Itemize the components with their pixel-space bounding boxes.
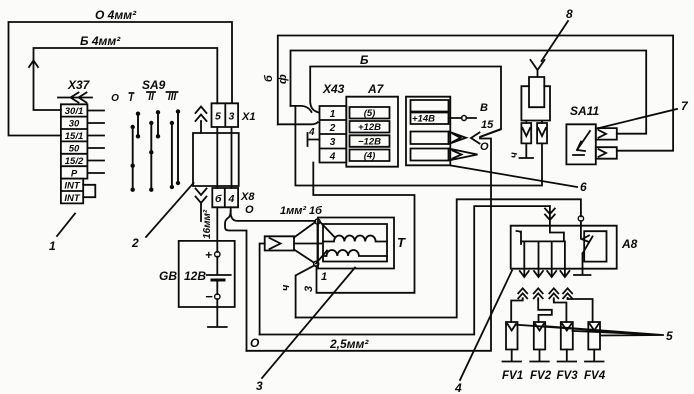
B loop wire to receiver bar3 [310, 67, 501, 137]
svg-text:+12В: +12В [358, 122, 381, 133]
SA9 bar II-left [150, 123, 152, 190]
radio bar 2 +14V [411, 113, 449, 125]
svg-text:О 4мм²: О 4мм² [95, 8, 137, 22]
A8 contact arrow [581, 226, 593, 254]
svg-text:50: 50 [69, 144, 80, 155]
svg-text:1мм²: 1мм² [280, 205, 306, 217]
svg-text:1: 1 [321, 271, 327, 283]
svg-text:2: 2 [329, 123, 336, 134]
SA9 bar I-right [137, 114, 139, 137]
stem to FV2 [538, 300, 552, 322]
A7 box [346, 97, 398, 167]
T inner box [323, 224, 387, 262]
antenna outer box [521, 86, 550, 123]
SA11 box [566, 124, 595, 164]
big outer loop wire (to SA11 lower plug) [278, 36, 673, 151]
legs down chevrons [520, 271, 570, 277]
loop A wire [296, 199, 581, 317]
svg-text:30: 30 [69, 119, 80, 130]
FV4 ground [585, 350, 604, 362]
loop B wire [260, 206, 550, 334]
svg-text:1: 1 [330, 109, 336, 120]
svg-text:О: О [245, 204, 254, 216]
connector X8 boxes [212, 188, 238, 207]
SA9 bar III-left [171, 123, 173, 187]
FV2 ground [530, 350, 549, 362]
loop C bottom wire (O 2.5mm2) [247, 139, 492, 351]
A8 output legs [524, 241, 565, 276]
svg-text:15: 15 [481, 119, 494, 131]
svg-text:ч: ч [509, 152, 520, 158]
down chevrons and 16mm2 stub [196, 189, 207, 222]
hook into X43 row 1 [291, 106, 312, 112]
svg-text:Х37: Х37 [67, 78, 91, 92]
A8 ground [574, 254, 591, 276]
arrow tick on B wire [29, 61, 38, 68]
svg-text:Х1: Х1 [241, 111, 255, 123]
SA9 bar III-right [177, 112, 179, 184]
battery GB box [179, 241, 235, 307]
stem to FV4 [568, 298, 593, 322]
SA9 position labels [111, 92, 176, 104]
svg-text:3: 3 [303, 286, 315, 292]
leader 5 lines [516, 325, 664, 336]
leader 7 [597, 109, 677, 129]
hook into X43 row 2 [278, 122, 318, 124]
svg-text:Р: Р [71, 168, 78, 179]
svg-text:15/2: 15/2 [65, 156, 84, 167]
svg-text:+: + [205, 248, 212, 262]
radio bar 4 with plug [411, 149, 478, 161]
leader 1 [57, 214, 75, 237]
radio unit box [406, 97, 450, 166]
SA9 bar I-left [132, 127, 134, 190]
A8 box [511, 226, 617, 269]
svg-text:FV1: FV1 [502, 370, 523, 382]
svg-text:ф: ф [277, 74, 289, 84]
connector X1 boxes [212, 103, 239, 127]
SA11 plug upper [596, 128, 617, 140]
svg-text:INT: INT [64, 193, 81, 204]
antenna feeder wire [295, 106, 542, 186]
A8 contact tick [517, 231, 522, 244]
svg-text:7: 7 [681, 99, 689, 113]
bar2 line and circle [449, 117, 477, 119]
FV1 ground [503, 350, 522, 362]
svg-text:II: II [148, 92, 154, 103]
leader 2 [146, 183, 194, 237]
svg-text:б: б [263, 74, 275, 82]
svg-text:О: О [111, 93, 119, 104]
plug chevron [270, 238, 281, 249]
up chevrons at X1 [196, 107, 207, 134]
svg-text:В: В [480, 102, 488, 114]
fuse FV3 [561, 322, 573, 350]
antenna plug left [521, 123, 531, 143]
svg-text:2: 2 [131, 236, 139, 250]
svg-text:Х43: Х43 [322, 82, 345, 96]
svg-text:15/1: 15/1 [65, 131, 84, 142]
loop B chevrons into A8 [545, 206, 555, 226]
radio bar 3 with plug [411, 132, 467, 145]
svg-text:I: I [130, 93, 133, 104]
A8 nested box [584, 231, 606, 261]
svg-text:Т: Т [397, 235, 406, 250]
T bottom junction dot [314, 261, 319, 266]
vibrator plug box [265, 236, 294, 250]
svg-text:GВ: GВ [159, 269, 177, 283]
fuse FV1 [506, 322, 518, 350]
contact tick 4 at X43 row3 [308, 133, 320, 146]
pin 3 wire to loop A [296, 266, 315, 318]
A7 row boxes [350, 107, 390, 161]
svg-text:4: 4 [329, 152, 336, 163]
svg-text:6: 6 [580, 180, 587, 194]
FV3 ground [558, 350, 577, 362]
leader 3 [262, 268, 355, 379]
T internal left vertical [317, 224, 319, 261]
svg-text:−: − [205, 289, 213, 304]
antenna plug right [537, 123, 547, 143]
fan lines from plug [294, 222, 323, 263]
A8 input circle wire [580, 221, 582, 226]
leader 4 [460, 271, 512, 381]
SA11 plug lower [596, 147, 617, 159]
pin 1 wire to X43 row4 [313, 163, 414, 293]
A8 stair wire [521, 226, 564, 241]
svg-text:4: 4 [308, 127, 315, 138]
battery plates [207, 257, 231, 275]
X43 row numerals [329, 109, 336, 163]
X37 terminal texts [64, 106, 84, 204]
svg-text:(4): (4) [364, 151, 376, 162]
svg-text:FV2: FV2 [530, 370, 552, 382]
wire B 4mm2 [34, 48, 218, 110]
arrowhead 15 wire [471, 130, 501, 144]
T top coil [323, 236, 387, 242]
stem to FV3 [554, 300, 567, 322]
antenna Y symbol [531, 60, 545, 77]
T outer box [318, 218, 394, 269]
connector X37 INT boxes [61, 179, 83, 204]
battery positive wire and terminal [216, 207, 218, 252]
svg-text:5: 5 [215, 111, 221, 123]
svg-text:FV3: FV3 [557, 370, 579, 382]
antenna inner rect [529, 77, 544, 107]
T bottom coil [323, 250, 387, 256]
X37 INT bracket [83, 185, 95, 197]
SA11 arrow [573, 131, 590, 155]
svg-text:ч: ч [280, 284, 292, 291]
second loop wire (to SA11 upper plug) [291, 51, 647, 134]
svg-text:О: О [480, 141, 489, 153]
svg-text:1б: 1б [309, 205, 323, 217]
radio bar 1 [411, 100, 449, 112]
connector X37 terminal boxes [61, 104, 88, 178]
A7 row texts [358, 108, 381, 162]
svg-text:3: 3 [229, 111, 235, 123]
antenna ground ch [520, 143, 534, 158]
svg-text:Х8: Х8 [240, 191, 255, 203]
connector X37 plug symbol [58, 93, 92, 103]
svg-text:16мм²: 16мм² [202, 209, 213, 239]
svg-text:SA9: SA9 [142, 78, 166, 92]
svg-text:Б: Б [360, 53, 369, 67]
svg-text:(5): (5) [364, 108, 376, 119]
svg-text:б: б [215, 193, 222, 205]
svg-text:5: 5 [666, 329, 673, 343]
svg-text:SA11: SA11 [570, 104, 599, 118]
svg-text:О: О [250, 336, 260, 350]
svg-text:INT: INT [64, 181, 81, 192]
X37 right stubs [87, 111, 104, 174]
wire X8-4 to T and loop C riser [231, 207, 316, 221]
fan from dot to coils [316, 222, 334, 264]
wire X8-4 to loop C [225, 211, 247, 351]
T junction dot 1b [315, 219, 320, 224]
svg-text:+14В: +14В [412, 114, 435, 125]
stem to FV1 [511, 299, 523, 323]
svg-text:FV4: FV4 [584, 370, 606, 382]
svg-text:30/1: 30/1 [65, 106, 84, 117]
svg-text:Б 4мм²: Б 4мм² [80, 34, 121, 48]
wire O 4mm2 [9, 22, 233, 136]
svg-text:12В: 12В [184, 269, 206, 283]
svg-text:А8: А8 [621, 237, 638, 251]
up chevrons row [518, 288, 527, 299]
svg-text:2,5мм²: 2,5мм² [329, 337, 369, 351]
fuse FV2 [534, 322, 545, 350]
fuse FV4 [588, 322, 600, 350]
svg-text:А7: А7 [367, 82, 385, 96]
svg-text:8: 8 [566, 7, 573, 21]
battery ground [208, 299, 227, 327]
svg-text:1: 1 [49, 239, 56, 253]
SA9 bar II-right [157, 112, 159, 136]
svg-text:3: 3 [256, 379, 263, 393]
X43 column box [320, 106, 347, 163]
leader 6 [451, 166, 577, 188]
svg-text:III: III [168, 92, 177, 103]
block 2 box [193, 133, 239, 186]
svg-text:3: 3 [330, 137, 336, 148]
wires through block 2 [217, 127, 231, 188]
svg-text:4: 4 [454, 381, 462, 394]
plug left wire to loop B [260, 244, 265, 335]
svg-text:4: 4 [228, 193, 235, 205]
leader 8 [542, 21, 569, 61]
svg-text:−12В: −12В [358, 136, 381, 147]
battery negative terminal [216, 282, 218, 294]
